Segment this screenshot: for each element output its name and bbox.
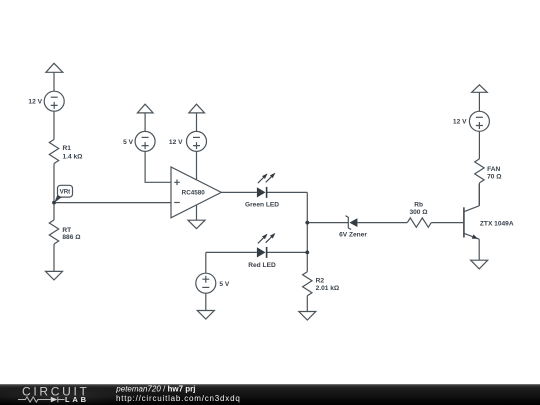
svg-text:5 V: 5 V	[219, 281, 229, 288]
svg-text:Green LED: Green LED	[245, 201, 279, 208]
svg-text:2.01 kΩ: 2.01 kΩ	[316, 285, 340, 292]
svg-text:LAB: LAB	[65, 395, 89, 404]
svg-text:Rb: Rb	[414, 201, 423, 208]
svg-text:Red LED: Red LED	[248, 262, 276, 269]
svg-text:300 Ω: 300 Ω	[409, 209, 428, 216]
svg-text:5 V: 5 V	[123, 139, 133, 146]
svg-text:VRt: VRt	[60, 189, 71, 196]
svg-text:12 V: 12 V	[169, 139, 183, 146]
svg-text:RC4580: RC4580	[182, 190, 206, 197]
svg-text:6V Zener: 6V Zener	[339, 232, 367, 239]
svg-text:886 Ω: 886 Ω	[62, 234, 81, 241]
svg-text:12 V: 12 V	[28, 99, 42, 106]
svg-text:1.4 kΩ: 1.4 kΩ	[63, 153, 84, 160]
svg-text:R1: R1	[63, 145, 72, 152]
svg-text:FAN: FAN	[487, 166, 500, 173]
svg-text:RT: RT	[62, 227, 71, 234]
svg-text:peteman720 / hw7 prj: peteman720 / hw7 prj	[115, 384, 195, 393]
svg-text:12 V: 12 V	[453, 119, 467, 126]
svg-text:70 Ω: 70 Ω	[487, 173, 502, 180]
svg-text:R2: R2	[316, 277, 325, 284]
svg-text:ZTX 1049A: ZTX 1049A	[480, 221, 514, 228]
svg-text:http://circuitlab.com/cn3dxdq: http://circuitlab.com/cn3dxdq	[116, 394, 241, 403]
